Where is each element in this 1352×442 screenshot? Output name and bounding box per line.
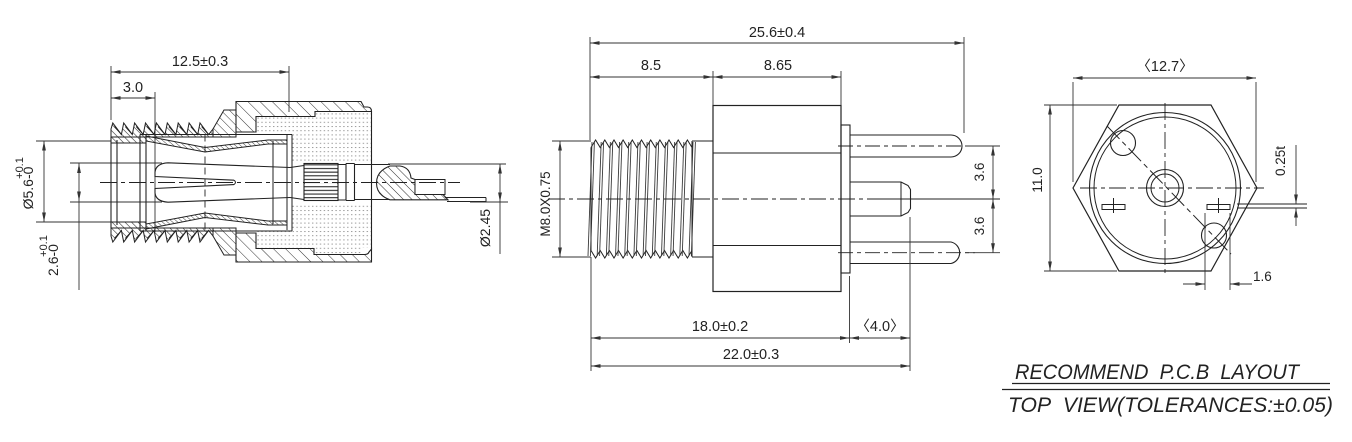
left view: collar ramp top (213, 110, 236, 137)
left view: insulator top (stipple) (256, 112, 371, 163)
svg-text:12.5±0.3: 12.5±0.3 (172, 54, 228, 70)
top view: metal tab side projection (1237, 204, 1307, 208)
left view: solder lug (hatched) (377, 166, 449, 200)
left view: insulator bottom (stipple) (256, 203, 371, 254)
left view: knurled section (304, 164, 338, 201)
left view: contact sleeve housing (140, 135, 292, 232)
top view: hole bottom-right (1202, 223, 1227, 248)
svg-text:〈12.7〉: 〈12.7〉 (1136, 58, 1193, 75)
left view: pin neck and ring (338, 164, 390, 201)
middle view: dimension M8.0X0.75 (538, 141, 591, 257)
middle view: dimension 18.0±0.2 (591, 257, 850, 371)
left view: dimension 3.0 (111, 80, 155, 232)
left view: shell right edge (371, 111, 373, 250)
middle view: dimension (4.0) (850, 217, 911, 371)
svg-text:TOP VIEW(TOLERANCES:±0.05): TOP VIEW(TOLERANCES:±0.05) (1008, 394, 1333, 417)
left view: outer shell top section (hatched) (236, 102, 372, 133)
top view: pcb pad right (1207, 198, 1230, 213)
left view: solder tab (445, 198, 486, 202)
middle view: flange washer (841, 125, 850, 273)
left view: center pin spring leaves (155, 163, 304, 202)
left view: dimension Ø2.45 (388, 164, 508, 254)
top view: dimension 1.6 (1183, 213, 1272, 290)
middle view: top pin (838, 135, 975, 157)
left view: threaded bushing top thread (111, 123, 213, 143)
svg-text:8.65: 8.65 (764, 58, 792, 74)
svg-text:25.6±0.4: 25.6±0.4 (749, 25, 805, 41)
left view: dimension Ø5.6 +0.1/-0 (14, 141, 111, 222)
middle view: bottom pin (838, 242, 975, 264)
svg-text:M8.0X0.75: M8.0X0.75 (538, 171, 553, 236)
note underline 2 (1002, 389, 1330, 391)
top view: diagonal centerline (1107, 126, 1231, 254)
svg-text:+0.1: +0.1 (14, 157, 26, 179)
left view: collar ramp bottom (213, 228, 236, 255)
svg-text:3.6: 3.6 (972, 217, 987, 236)
left view: centerline (100, 182, 460, 184)
top view: crosshair centerlines (1080, 103, 1264, 273)
left view: sleeve funnel wall bottom (hatched) (146, 213, 287, 229)
top view: hex nut outline (1073, 105, 1257, 271)
top view: hole top-left (1111, 131, 1136, 156)
svg-text:18.0±0.2: 18.0±0.2 (692, 319, 748, 335)
top view: dimension (12.7) (1073, 58, 1256, 182)
middle view: centerline (548, 198, 870, 200)
middle view: hex body (713, 106, 841, 292)
svg-text:RECOMMEND P.C.B LAYOUT: RECOMMEND P.C.B LAYOUT (1015, 361, 1301, 384)
svg-text:0.25t: 0.25t (1273, 146, 1288, 176)
left view: sleeve funnel wall top (hatched) (146, 136, 287, 152)
top view: dimension 11.0 (1030, 105, 1117, 271)
svg-text:3.6: 3.6 (972, 163, 987, 182)
note underline 1 (1012, 383, 1330, 385)
svg-text:8.5: 8.5 (641, 58, 661, 74)
top view: center pin hole (1147, 170, 1184, 207)
svg-text:+0.1: +0.1 (38, 235, 50, 257)
svg-text:11.0: 11.0 (1030, 167, 1045, 192)
middle view: dimension 22.0±0.3 (591, 347, 910, 368)
left view: threaded bushing bottom thread (111, 222, 213, 242)
left view: hidden line through sleeve (204, 135, 206, 232)
left view: outer shell bottom section (hatched) (236, 233, 372, 262)
middle view: dimension 8.65 (713, 58, 841, 105)
top view: dimension 0.25t (1273, 145, 1298, 226)
left view: front face of bushing (111, 137, 146, 228)
top view: pcb pad left (1102, 198, 1125, 213)
svg-text:22.0±0.3: 22.0±0.3 (723, 347, 779, 363)
top view: body circles (1090, 113, 1241, 264)
svg-text:〈4.0〉: 〈4.0〉 (855, 318, 904, 335)
left view: dimension 2.6 +0.1/-0 (38, 163, 162, 290)
middle view: dimension 8.5 (590, 58, 713, 105)
middle view: thread M8 (588, 140, 713, 258)
middle view: dimension 25.6±0.4 (590, 25, 964, 140)
svg-text:3.0: 3.0 (123, 80, 143, 96)
svg-text:1.6: 1.6 (1253, 269, 1272, 284)
svg-text:Ø2.45: Ø2.45 (477, 209, 493, 247)
middle view: center pin (850, 182, 911, 216)
middle view: dimension 3.6 top (965, 146, 1000, 199)
left view: dimension 12.5±0.3 (111, 54, 289, 120)
middle view: dimension 3.6 bottom (965, 199, 1000, 253)
